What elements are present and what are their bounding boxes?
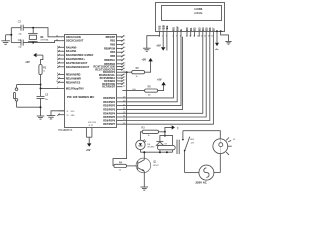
wire RC2 node down to R4 — [113, 72, 127, 166]
wire R4 to Q1 base — [127, 165, 138, 167]
svg-text:VDD: VDD — [161, 25, 165, 31]
svg-text:RD7/PSP7: RD7/PSP7 — [103, 123, 115, 126]
pin LCD backlight dots — [216, 30, 218, 32]
svg-text:RD3/PSP3: RD3/PSP3 — [103, 108, 115, 111]
ground LCD VSS — [143, 47, 151, 49]
wire LCD backlight to ground — [221, 31, 229, 41]
wire R2 to MCLR — [40, 75, 42, 97]
pin left RE0/AN5/RD y=74.5 — [59, 74, 65, 76]
pin left RE2/AN7/CS y=82.3 — [59, 81, 65, 83]
svg-text:D6: D6 — [208, 27, 212, 31]
wire R6 to +5V — [145, 61, 151, 72]
crystal X1 — [32, 28, 34, 34]
wire Q1 collector — [143, 152, 145, 160]
wire LCD VSS to ground — [159, 35, 161, 37]
svg-text:8: 8 — [190, 35, 191, 37]
wire R5 to +5V — [158, 85, 164, 91]
svg-text:+5V: +5V — [86, 149, 91, 152]
svg-text:10k: 10k — [148, 94, 151, 96]
wire bus D5 — [122, 37, 206, 117]
pin right RB2 y=44.5 — [117, 44, 123, 46]
wire bus E — [122, 37, 181, 106]
resistor R6 — [132, 71, 145, 74]
svg-text:RC7/RX/DT: RC7/RX/DT — [102, 86, 115, 89]
svg-text:9: 9 — [193, 35, 194, 37]
svg-text:RE0/AN5/RD: RE0/AN5/RD — [66, 74, 81, 77]
pin left RA0/AN0 y=47.3 — [59, 46, 65, 48]
svg-text:11: 11 — [67, 111, 69, 113]
svg-text:LCD1: LCD1 — [194, 7, 202, 11]
svg-text:RE1/AN6/WR: RE1/AN6/WR — [66, 77, 81, 80]
svg-text:RA2/AN2/VREF-/CVREF: RA2/AN2/VREF-/CVREF — [66, 54, 94, 57]
power +5V terminal R5 — [161, 82, 165, 85]
wire bus D4 — [122, 37, 202, 114]
svg-text:VDD VSS: VDD VSS — [88, 122, 97, 124]
svg-text:7: 7 — [186, 35, 187, 37]
svg-text:RB1: RB1 — [110, 40, 116, 43]
op-amp U1 PIC16F MCU body — [65, 35, 117, 128]
resistor R2 — [39, 65, 42, 75]
svg-text:D4: D4 — [201, 27, 205, 31]
svg-text:RW: RW — [175, 26, 179, 31]
pin right RC7/RX/DT y=86.7 — [117, 86, 123, 88]
pin right RC6/TX/CK y=83.8 — [117, 83, 123, 85]
capacitor C5 — [37, 95, 45, 97]
node osc1 junction — [32, 27, 34, 29]
svg-text:D2: D2 — [193, 27, 197, 31]
wire osc bottom C4 net — [11, 42, 21, 44]
svg-text:MCLR/Vpp/THV: MCLR/Vpp/THV — [66, 87, 84, 90]
svg-text:33p: 33p — [18, 47, 21, 49]
pin right RD7/PSP7 y=124.2 — [117, 123, 123, 125]
ground reset — [37, 115, 45, 117]
svg-text:VEE: VEE — [165, 25, 169, 31]
svg-text:+5V: +5V — [156, 45, 161, 48]
svg-text:X1: X1 — [40, 35, 44, 39]
pin left RA5/AN4/SS/C2OUT y=66.8 — [59, 66, 65, 68]
ground LCD backlight — [225, 41, 231, 43]
svg-text:LED-RED: LED-RED — [147, 147, 155, 149]
pin left RA1/AN1 y=51.2 — [59, 50, 65, 52]
wire bus D3 — [122, 37, 182, 110]
svg-text:RB3/PGM: RB3/PGM — [104, 47, 115, 50]
svg-text:OSC2/CLKOUT: OSC2/CLKOUT — [66, 40, 84, 43]
switch reset button — [15, 88, 18, 91]
svg-text:BC547: BC547 — [153, 165, 159, 167]
wire bus D7 — [122, 37, 213, 125]
svg-text:D1: D1 — [189, 27, 193, 31]
pin left OSC1/CLKIN y=36.8 — [59, 36, 65, 38]
svg-text:+5V: +5V — [25, 61, 30, 64]
pin right RC4/SDI/SDA y=78.0 — [117, 77, 123, 79]
relay coil RL1 — [157, 145, 175, 149]
svg-text:RB2: RB2 — [110, 44, 116, 47]
pin right RC5/SDO y=80.9 — [117, 80, 123, 82]
transistor Q1 — [136, 158, 151, 173]
svg-text:RA1/AN1: RA1/AN1 — [66, 50, 77, 53]
ground osc left — [6, 34, 12, 36]
power +5V terminal LCD VDD — [162, 37, 164, 48]
svg-text:E: E — [179, 29, 183, 31]
pin right RB1 y=40.7 — [117, 40, 123, 42]
pin right RC1/T1OSI/CCP2 y=69.4 — [117, 68, 123, 70]
power +5V terminal R6 — [148, 58, 152, 61]
pin right RB4 y=52.2 — [117, 51, 123, 53]
svg-text:PIC 16F SERIES MC: PIC 16F SERIES MC — [67, 95, 95, 99]
svg-text:RA3/AN3/VREF+: RA3/AN3/VREF+ — [66, 58, 86, 61]
node button top junction — [40, 84, 42, 86]
svg-text:220V AC: 220V AC — [196, 181, 207, 185]
pin right RC2/CCP1 y=72.2 — [117, 71, 123, 73]
svg-text:RB0/INT: RB0/INT — [106, 36, 116, 39]
svg-text:10: 10 — [197, 35, 199, 37]
pin left RA3/AN3/VREF+ y=59.0 — [59, 58, 65, 60]
svg-text:CRYSTAL: CRYSTAL — [40, 39, 49, 42]
terminal arrow net — [172, 125, 175, 129]
svg-text:RB4: RB4 — [110, 51, 116, 54]
wire bus RW — [122, 37, 177, 102]
svg-text:GND: GND — [71, 115, 76, 117]
wire collector rail — [140, 151, 172, 153]
capacitor C4 — [20, 40, 22, 46]
svg-text:10u: 10u — [45, 99, 48, 101]
svg-text:LM016L: LM016L — [194, 12, 203, 15]
wire left vertical osc — [10, 28, 12, 43]
power +5V terminal LCD backlight — [216, 31, 218, 42]
power +5V terminal MCLR — [33, 53, 36, 57]
svg-text:D3: D3 — [197, 27, 201, 31]
pin left OSC2/CLKOUT y=40.7 — [59, 40, 65, 42]
pin right RD1/PSP1 y=101.8 — [117, 101, 123, 103]
wire AC left — [185, 172, 199, 174]
wire node to D7 and coil — [164, 132, 166, 136]
LCD LCD1 body — [156, 3, 225, 32]
svg-text:1k: 1k — [119, 169, 121, 171]
svg-text:RD1/PSP1: RD1/PSP1 — [103, 101, 115, 104]
AC source V1 — [199, 165, 214, 180]
pin right RB3/PGM y=48.4 — [117, 47, 123, 49]
svg-text:33p: 33p — [18, 34, 21, 36]
svg-text:1k: 1k — [148, 135, 150, 137]
pin left VDD/VSS y=110.8 — [59, 110, 65, 112]
wire bus D6 — [122, 37, 209, 121]
wire lamp bottom — [219, 154, 221, 173]
pin left MCLR/Vpp/THV y=88.4 — [59, 87, 65, 89]
svg-text:D0: D0 — [185, 27, 189, 31]
svg-text:VSS: VSS — [158, 25, 162, 31]
diode D7 — [156, 140, 163, 142]
pin right RB0/INT y=36.8 — [117, 36, 123, 38]
svg-text:1k: 1k — [43, 70, 45, 72]
LED D6 — [136, 140, 145, 149]
wire MCLR — [41, 87, 59, 89]
pin right RC0/T1OSO/T1CKI y=66.5 — [117, 66, 123, 68]
pin right RB5 y=56.1 — [117, 55, 123, 57]
node osc2 junction — [32, 42, 34, 44]
svg-text:31: 31 — [67, 115, 69, 117]
pin left RA2/AN2/VREF-/CVREF y=55.1 — [59, 54, 65, 56]
wire lamp top — [183, 131, 220, 139]
pin right RD6/PSP6 y=120.5 — [117, 120, 123, 122]
resistor R5 — [145, 89, 158, 92]
pin left RA4/T0CKI/C1OUT y=62.9 — [59, 62, 65, 64]
svg-text:+5V: +5V — [157, 79, 162, 82]
pin MCU bottom VDD/VSS — [85, 128, 87, 138]
wire RC7 to R5 — [122, 90, 144, 92]
ground MCU VSS — [47, 115, 56, 117]
wire osc top C3 net — [11, 27, 21, 29]
svg-text:OSC1/CLKIN: OSC1/CLKIN — [66, 36, 81, 39]
svg-text:D5: D5 — [204, 27, 208, 31]
pin left VDD/VSS y=114.7 — [59, 114, 65, 116]
node C5 bottom junction — [40, 106, 42, 108]
svg-text:RB5: RB5 — [110, 55, 116, 58]
wire R3 right node — [159, 131, 165, 133]
pin right RD4/PSP4 y=113.3 — [117, 112, 123, 114]
svg-text:RA5/AN4/SS/C2OUT: RA5/AN4/SS/C2OUT — [66, 66, 90, 69]
resistor R4 — [114, 164, 127, 167]
ground Q1 emitter — [141, 186, 149, 188]
svg-text:RE2/AN7/CS: RE2/AN7/CS — [66, 81, 81, 84]
pin right RD5/PSP5 y=117.0 — [117, 116, 123, 118]
wire RC2 to R6 — [122, 71, 131, 73]
wire AC right — [214, 172, 220, 174]
relay contact RL1 — [182, 131, 184, 140]
resistor R3 — [142, 130, 158, 133]
svg-text:RS: RS — [172, 27, 176, 31]
wire Q1 emitter to ground — [143, 171, 145, 187]
svg-text:RA4/T0CKI/C1OUT: RA4/T0CKI/C1OUT — [66, 62, 88, 65]
svg-text:+5V: +5V — [142, 58, 147, 61]
power +5V terminal MCU bottom — [87, 143, 91, 146]
pin right RB7/PGD y=63.8 — [117, 63, 123, 65]
pin right RB6/PGC y=59.9 — [117, 59, 123, 61]
svg-text:RA0/AN0: RA0/AN0 — [66, 46, 77, 49]
lamp L1 — [213, 139, 228, 154]
pin right RD2/PSP2 y=105.6 — [117, 105, 123, 107]
svg-text:RD4/PSP4: RD4/PSP4 — [103, 112, 115, 115]
pin LCD VEE wire — [166, 37, 168, 51]
svg-text:RB6/PGC: RB6/PGC — [104, 59, 115, 62]
wire LED bottom — [139, 150, 141, 153]
pin right RD0/PSP0 y=97.9 — [117, 97, 123, 99]
svg-text:11 32: 11 32 — [89, 125, 93, 127]
svg-text:1k: 1k — [136, 76, 138, 78]
svg-text:RD6/PSP6: RD6/PSP6 — [103, 120, 115, 123]
svg-text:RD0/PSP0: RD0/PSP0 — [103, 97, 115, 100]
node R6 junction — [126, 71, 128, 73]
svg-text:D7: D7 — [212, 27, 216, 31]
wire R3 to LED D6 — [140, 132, 142, 140]
wire MCU VSS to ground — [51, 111, 65, 116]
wire bus RS — [122, 37, 173, 98]
pin right RD3/PSP3 y=109.4 — [117, 108, 123, 110]
capacitor C3 — [20, 25, 22, 31]
pin right RC3/SCK/SCL y=75.1 — [117, 74, 123, 76]
svg-text:RD2/PSP2: RD2/PSP2 — [103, 105, 115, 108]
svg-text:PIC16F877A: PIC16F877A — [59, 129, 73, 132]
pin left RE1/AN6/WR y=78.4 — [59, 77, 65, 79]
